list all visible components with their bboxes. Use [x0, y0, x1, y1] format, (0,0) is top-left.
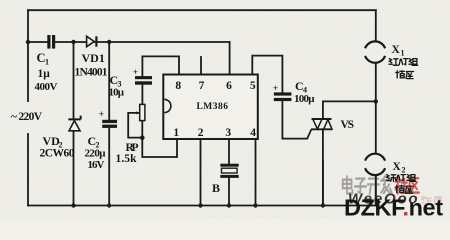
junction node pin4 ground [253, 203, 257, 207]
wire C2 branch upper [108, 42, 110, 120]
diode VD1 [87, 36, 97, 46]
wire X1 bottom to X2 top [375, 63, 377, 154]
socket X1 label [392, 44, 405, 58]
zener VD2 labels [40, 134, 75, 160]
svg-text:4: 4 [250, 127, 256, 139]
svg-text:3: 3 [225, 127, 231, 139]
diode VD1 labels [75, 51, 108, 79]
wire top rail to X1 top [375, 10, 377, 41]
svg-text:LM386: LM386 [196, 102, 228, 112]
wire B bottom to ground rail [228, 178, 230, 206]
potentiometer RP labels [116, 142, 139, 165]
svg-text:2CW60: 2CW60 [40, 148, 75, 160]
svg-text:X: X [392, 44, 401, 56]
wire C3 bottom to RP top [141, 85, 143, 105]
wire pin6 drop from supply rail [229, 42, 231, 75]
junction node on AC line at supply rail [26, 40, 30, 44]
watermark wei ku faint CJK [422, 196, 443, 204]
wire triac MT2 to X1/X2 node [323, 101, 376, 119]
svg-text:100μ: 100μ [294, 93, 315, 105]
wire X2 bottom to ground rail (over watermark) [323, 160, 376, 206]
socket X2 label [393, 161, 406, 175]
capacitor C2 plates [102, 120, 117, 128]
wire pin5 to C4 top [252, 56, 282, 93]
wire pin7 stub [200, 57, 202, 75]
junction node VD2 ground [71, 203, 75, 207]
junction node pin2 ground [198, 203, 202, 207]
svg-text:16V: 16V [88, 159, 105, 171]
wire VD2 branch upper [73, 42, 75, 119]
capacitor C3 plates [135, 76, 152, 85]
svg-text:1μ: 1μ [38, 68, 51, 80]
svg-text:400V: 400V [35, 81, 58, 93]
capacitor C1 labels [35, 51, 58, 93]
capacitor C2 labels [85, 134, 107, 171]
svg-text:DZKF.net: DZKF.net [344, 195, 443, 219]
junction node C2 ground [107, 203, 111, 207]
svg-text:+: + [133, 68, 138, 78]
label X2 green lamp group (green-lamp-group CJK) [386, 175, 415, 182]
svg-text:2: 2 [402, 166, 406, 175]
wire top rail [28, 9, 376, 11]
wire pin3 to B top [228, 139, 230, 164]
capacitor C1 plates [47, 35, 55, 49]
wire VD2 branch lower [73, 131, 75, 206]
wire triac MT1 to ground rail [322, 129, 324, 205]
svg-text:X: X [393, 161, 402, 173]
junction node MT2 to lamp line [374, 99, 378, 103]
wire supply rail segment left of C1 [28, 41, 47, 43]
wire pin4 to ground rail [255, 139, 257, 206]
svg-text:VD1: VD1 [82, 51, 105, 65]
svg-text:6: 6 [226, 80, 232, 92]
wire X2 bottom to ground rail [375, 175, 377, 206]
zener diode VD2 [68, 116, 80, 131]
svg-text:~ 220V: ~ 220V [11, 111, 43, 123]
junction node C2 branch [107, 40, 111, 44]
junction node B ground [227, 203, 231, 207]
wire RP wiper loop [128, 113, 142, 138]
svg-text:10μ: 10μ [109, 87, 125, 99]
svg-text:2: 2 [198, 127, 204, 139]
junction node triac MT1 ground [321, 203, 325, 207]
svg-text:+: + [99, 110, 104, 120]
wire supply rail C1 to pin6 corner [55, 41, 229, 43]
socket X2 arcs [365, 154, 385, 175]
svg-text:8: 8 [175, 80, 181, 92]
op-amp U1 LM386 IC body [163, 75, 257, 140]
capacitor C4 labels [294, 79, 315, 105]
wire C2 branch lower [108, 127, 110, 205]
svg-text:VS: VS [341, 119, 355, 131]
piezo element B [220, 164, 238, 178]
wire left vertical upper (AC line) [27, 10, 29, 101]
watermark CJK text (dian zi kai fa she qu) [343, 176, 419, 194]
wire bottom rail [28, 205, 376, 207]
triac VS [307, 119, 332, 139]
svg-text:1N4001: 1N4001 [75, 67, 108, 79]
svg-text:220μ: 220μ [85, 148, 107, 160]
svg-text:B: B [212, 181, 220, 195]
svg-text:1.5k: 1.5k [116, 153, 138, 165]
label X2 socket (socket CJK) [395, 185, 413, 193]
junction node RP wiper/bottom [140, 135, 145, 140]
junction node VD2 branch [71, 40, 75, 44]
potentiometer RP body [140, 104, 145, 120]
svg-text:1: 1 [401, 49, 405, 58]
svg-text:1: 1 [45, 58, 49, 67]
capacitor C3 labels [109, 73, 125, 99]
wire C4 bottom to triac gate [282, 101, 307, 139]
svg-text:7: 7 [199, 80, 205, 92]
wire pin8 to C3 top [142, 56, 179, 76]
socket X1 arcs [365, 41, 385, 62]
svg-text:5: 5 [250, 80, 256, 92]
label X1 socket (socket CJK) [396, 71, 414, 79]
wire left vertical lower (AC line) [27, 134, 29, 206]
IC notch [164, 99, 171, 112]
wire pin2 to ground rail [200, 139, 202, 206]
potentiometer RP wiper arrowhead [136, 111, 140, 114]
capacitor C4 plates [274, 92, 292, 101]
svg-text:1: 1 [173, 127, 179, 139]
wire RP bottom to pin1 [142, 121, 177, 157]
label X1 red lamp group (red-lamp-group CJK) [389, 59, 418, 66]
svg-text:+: + [273, 84, 278, 94]
